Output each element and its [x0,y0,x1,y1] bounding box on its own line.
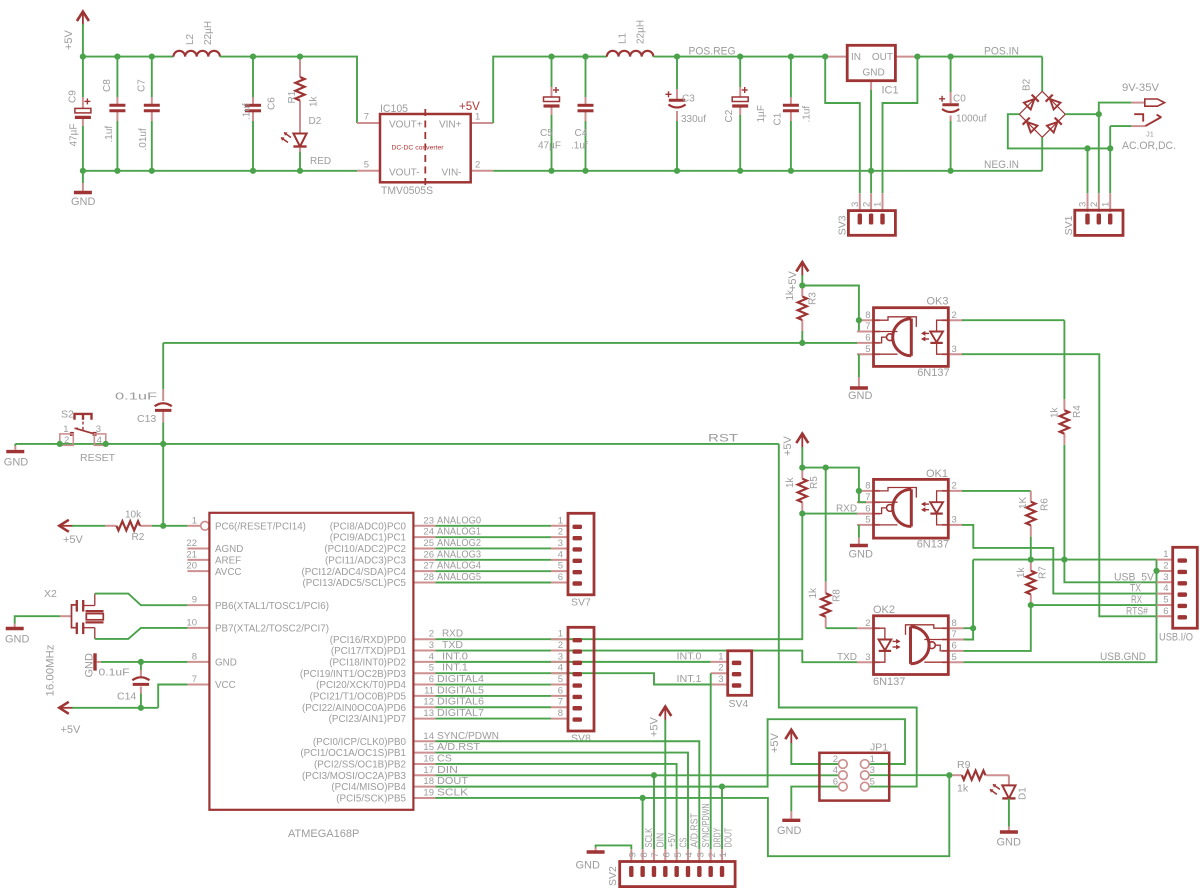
svg-text:2: 2 [558,527,563,538]
svg-text:INT.0: INT.0 [677,651,702,663]
svg-text:(PCI10/ADC2)PC2: (PCI10/ADC2)PC2 [324,544,406,555]
svg-text:(PCI18/INT0)PD2: (PCI18/INT0)PD2 [329,657,406,668]
IC105 pin name VIN- [442,167,462,178]
svg-text:DIGITAL4: DIGITAL4 [437,673,484,685]
connector SV3 pin stubs [860,193,883,212]
wire +5V to OK1 pins 8/7 [802,468,866,503]
label C7 value .01uf [138,128,149,150]
svg-text:0.1uF: 0.1uF [99,667,130,679]
crystal X2 gnd wire [15,616,60,627]
svg-text:DRDY: DRDY [711,828,723,848]
IC105 pin 7 stub [357,122,380,124]
label C2 value 1uF [756,105,767,122]
resistor R7 pins [1030,560,1032,606]
svg-text:1: 1 [870,754,875,765]
connector SV3 box [848,211,895,236]
power symbol +5V (R2) [59,520,83,546]
junction RXD at R5 bottom [799,510,805,516]
wire SV1 pin 2 [1098,114,1100,193]
label +5V (red, at VIN+) [459,101,480,113]
IC105 pin name VIN+ [439,120,462,131]
svg-text:GND: GND [4,457,29,469]
wire top +5V rail left segment [83,56,174,58]
wire SCLK to SV2 pin 8 [642,798,644,849]
svg-text:D2: D2 [309,116,322,127]
svg-text:GND: GND [71,196,96,208]
wire top rail POS.REG segment [653,56,825,58]
net label RTS# [1126,605,1149,617]
svg-text:6N137: 6N137 [873,676,905,688]
label DC-DC converter (red) [391,145,444,152]
svg-text:1: 1 [192,515,197,526]
wire R8 to OK2 pin 2 [826,627,857,629]
IC1 IN pin stub [825,56,847,58]
wire DOUT net [435,719,905,786]
label R3 value 1k [785,289,796,301]
junction +5V rail at C9 [80,54,86,60]
IC105 pin number 5 [364,159,369,170]
wire INT.1 net [435,673,710,684]
svg-text:VIN-: VIN- [442,167,462,178]
switch S2 pin boxes [60,434,106,445]
JP1 pin numbers left [833,754,838,788]
IC105 pin number 2 [475,159,480,170]
label OK1 [926,468,948,480]
wire CS net [435,764,676,849]
IC1 pin name IN [851,52,861,63]
svg-text:B2: B2 [1022,78,1033,91]
label C14 value 0.1uF [99,667,130,679]
svg-text:POS.REG: POS.REG [689,46,736,58]
IC1 pin name GND [863,68,885,79]
ground GND (X2) [5,629,30,646]
label C13 value 0.1uF [115,391,157,403]
bridge B2 diamond outline [1019,91,1065,137]
junction +5V rail at R1 [297,54,303,60]
wire A/D.RST net [435,753,688,850]
svg-text:DIN: DIN [655,833,667,848]
svg-text:1k: 1k [785,289,796,301]
svg-text:VIN+: VIN+ [439,120,462,131]
label R5 value 1k [785,476,796,488]
optocoupler OK1 (6N137) [857,479,964,538]
junction AC loop at SV1 pin 3 [1084,145,1090,151]
svg-text:SYNC/PDWN: SYNC/PDWN [437,730,499,742]
svg-text:(PCI11/ADC3)PC3: (PCI11/ADC3)PC3 [325,555,406,566]
connector SV2 box [620,862,735,887]
LED D2 [281,132,307,146]
label R1 [287,90,298,103]
svg-text:R2: R2 [132,532,145,543]
svg-text:6N137: 6N137 [917,367,949,379]
svg-text:5: 5 [1163,594,1168,605]
junction RST at C13 [160,441,166,447]
svg-text:RXD: RXD [442,628,463,640]
svg-text:11: 11 [424,685,434,696]
wire GND to pin 8 [97,661,188,663]
svg-text:ANALOG0: ANALOG0 [437,514,481,526]
junction POS.IN at C0 [948,54,954,60]
svg-text:(PCI21/T1/OC0B)PD5: (PCI21/T1/OC0B)PD5 [310,692,407,703]
svg-text:1: 1 [63,424,68,435]
connector J1 bracket [1134,114,1143,121]
svg-text:AGND: AGND [215,544,243,555]
junction POS.REG at C5 [548,54,554,60]
label OK2 [873,604,895,616]
label C8 [102,79,113,92]
svg-text:24: 24 [423,527,434,538]
svg-text:23: 23 [423,515,434,526]
wire DOUT to SV2 pin 1 [721,787,723,850]
svg-text:.1uf: .1uf [802,106,813,123]
IC105 pin number 7 [364,112,369,123]
svg-text:6: 6 [865,333,870,344]
svg-text:18: 18 [423,776,434,787]
wire +5V to R5 junction [801,447,803,468]
svg-text:8: 8 [865,481,870,492]
optocoupler OK3 (6N137) [857,308,964,367]
label C14 [117,691,136,703]
svg-text:OUT: OUT [872,52,893,63]
svg-text:+5V: +5V [63,29,75,50]
svg-text:(PCI0/ICP/CLK0)PB0: (PCI0/ICP/CLK0)PB0 [313,737,407,748]
svg-text:.1uf: .1uf [104,126,115,143]
junction POS.REG at C3 [674,54,680,60]
wire INT.0 net [435,661,710,663]
svg-text:2: 2 [861,202,872,207]
svg-text:4: 4 [97,435,102,446]
junction +5V at R8 [823,465,829,471]
power symbol +5V (JP1) [769,730,797,753]
svg-text:5: 5 [429,663,434,674]
connector SV8 pads [573,638,583,722]
junction RX at R7 bottom [1028,602,1034,608]
connector SV7 pads [573,525,583,586]
svg-text:GND: GND [777,825,802,837]
capacitor C8 [109,105,125,111]
wire OK2 pin 8 tap [964,627,974,629]
IC ATMEGA168P pin stubs [187,522,435,798]
junction GND rail at C3 [674,168,680,174]
label B2 [1022,78,1033,91]
svg-text:2: 2 [707,852,718,857]
svg-text:3: 3 [952,515,957,526]
svg-text:DIGITAL6: DIGITAL6 [437,696,484,708]
capacitor C5 (polarized) [544,87,560,106]
svg-text:C3: C3 [682,94,695,105]
wire bottom rail left segment [83,170,357,172]
wire top rail L2 to corner [220,57,357,123]
capacitor C4 wires [585,57,587,171]
connector SV1 box [1075,210,1123,235]
svg-text:330uf: 330uf [681,114,706,125]
switch S2 plunger dashes [82,422,84,430]
svg-text:(PCI13/ADC5/SCL)PC5: (PCI13/ADC5/SCL)PC5 [303,578,407,589]
svg-text:GND: GND [849,549,874,561]
wire OK3 pin 6 net (long) [163,342,857,344]
svg-text:(PCI16/RXD)PD0: (PCI16/RXD)PD0 [330,635,407,646]
label R9 value 1k [957,783,969,795]
svg-text:16: 16 [423,753,434,764]
svg-text:7: 7 [650,852,661,857]
net label USB.GND [1100,651,1146,663]
svg-text:CS: CS [437,752,452,764]
connector JP1 box [819,753,889,801]
svg-text:C7: C7 [137,79,148,92]
junction +5V at R5 [799,465,805,471]
net label RXD (at OK1) [836,502,857,514]
ATMEGA right pin numbers [423,515,434,798]
svg-text:1: 1 [558,515,563,526]
JP1 pin numbers right [870,754,875,788]
junction POS.REG at C2 [737,54,743,60]
IC105 pin name VOUT- [389,167,420,178]
svg-text:C4: C4 [575,128,588,139]
svg-text:3: 3 [850,202,861,207]
IC105 pin 1 stub [471,122,494,124]
svg-text:6: 6 [865,503,870,514]
svg-text:(PCI1/OC1A/OC1S)PB1: (PCI1/OC1A/OC1S)PB1 [300,748,406,759]
label SV3 [837,215,849,235]
connector SV7 stubs [551,526,568,583]
junction NEG.IN at IC1 GND [868,168,874,174]
svg-text:(PCI23/AIN1)PD7: (PCI23/AIN1)PD7 [329,714,406,725]
svg-text:8: 8 [558,708,563,719]
svg-text:2: 2 [1163,560,1168,571]
svg-text:7: 7 [952,629,957,640]
wire RX to USB pin 5 [1031,604,1157,606]
inductor L2 [174,51,220,57]
OK1 pin numbers [865,481,957,526]
svg-text:8: 8 [865,310,870,321]
label D1 [1018,787,1029,800]
ground GND (JP1) [777,820,802,837]
svg-text:(PCI2/SS/OC1B)PB2: (PCI2/SS/OC1B)PB2 [314,760,406,771]
connector SV2 stubs [631,849,722,863]
svg-text:2: 2 [1089,202,1100,207]
svg-text:GND: GND [5,634,30,646]
svg-text:TXD: TXD [442,639,463,651]
resistor R8 [821,593,830,617]
svg-text:1: 1 [718,651,723,662]
svg-text:L1: L1 [618,32,629,44]
resistor R8 pins [825,582,827,628]
junction RST at S2 pin 4 [103,441,109,447]
wire R2 to ATMEGA pin 1 [152,525,187,527]
capacitor C9 (polarized) [75,98,91,117]
IC105 dashed divider [424,109,426,188]
svg-text:IN: IN [851,52,861,63]
junction +5V rail at C6 [250,54,256,60]
svg-text:POS.IN: POS.IN [984,46,1019,58]
junction AC loop at SV1 pin 1 [1107,145,1113,151]
svg-text:21: 21 [186,549,197,560]
svg-text:1000uf: 1000uf [956,114,987,125]
label D2 value RED [310,156,331,167]
svg-text:(PCI19/INT1/OC2B)PD3: (PCI19/INT1/OC2B)PD3 [300,669,407,680]
label C9 value 47uF [69,124,80,147]
svg-text:5: 5 [558,561,563,572]
junction GND rail at C7 [149,168,155,174]
connector SV7 box [568,513,594,595]
junction RST/R2 at ATMEGA pin 1 [160,523,166,529]
label OK3 [927,295,949,307]
label R6 value 1K [1018,496,1029,509]
net label TX [1130,583,1142,595]
net labels RXD..DIGITAL7 [437,628,484,719]
junction POS.REG at IC1 IN [822,54,828,60]
OK3 pin numbers [865,310,957,355]
svg-text:DIN: DIN [437,764,458,776]
label L1 [618,32,629,44]
label JP1 [870,742,888,754]
svg-text:1: 1 [718,852,729,857]
wire +5V to JP1 pin 2 [791,743,838,764]
net label POS.REG [689,46,736,58]
svg-text:R1: R1 [287,90,298,103]
svg-text:1k: 1k [785,476,796,488]
junction GND rail at C2 [737,168,743,174]
label D2 [309,116,322,127]
label C7 [137,79,148,92]
IC105 pin name VOUT+ [389,120,423,131]
wire SV3 pin 1 branch [883,57,918,194]
wire D2 to bottom rail [299,148,301,171]
label C8 value .1uf [104,126,115,143]
crystal X2 (resonator) [60,594,104,639]
label IC1 [882,85,899,97]
junction +5V rail at C8 [114,54,120,60]
junction SCLK at SV2 pin 8 [640,795,646,801]
svg-text:USB_5V: USB_5V [1114,571,1155,583]
capacitor C1 wires [790,57,792,171]
IC105 pin number 1 [475,112,480,123]
wire USB_5V branch [1064,560,1156,583]
wire +5V to SV2 pin 6 [664,720,666,850]
svg-text:DIGITAL5: DIGITAL5 [437,684,484,696]
svg-text:ANALOG1: ANALOG1 [437,526,481,538]
svg-text:4: 4 [429,651,434,662]
wires DIGITAL4-7 to SV8 [435,685,551,719]
resistor R1 pins [299,57,301,134]
connector SV4 pads [732,661,742,688]
svg-text:RTS#: RTS# [1126,605,1149,617]
optocoupler OK2 (6N137) [857,616,964,675]
svg-text:8: 8 [639,852,650,857]
svg-text:SV2: SV2 [607,866,619,886]
switch S2 contacts [70,432,97,436]
label IC105 [380,103,408,115]
wire SV1 pin 1 (from J1) [1109,126,1111,193]
svg-text:5: 5 [364,159,369,170]
connector USB.I/O pin numbers [1163,549,1168,617]
ground GND (D1) [997,832,1022,849]
junction USB rail at R4 [1061,557,1067,563]
svg-text:6: 6 [833,777,838,788]
capacitor C1 [783,105,799,111]
junction GND rail at C5 [548,168,554,174]
junction USB pin 2 [1153,568,1159,574]
svg-text:+5V: +5V [782,435,794,456]
label SV8 [571,733,591,745]
svg-text:2: 2 [833,754,838,765]
svg-text:(PCI22/AIN0OC0A)PD6: (PCI22/AIN0OC0A)PD6 [302,703,407,714]
resistor R5 pins [801,468,803,514]
svg-text:1µF: 1µF [756,105,767,122]
svg-text:19: 19 [423,787,434,798]
svg-text:RXD: RXD [836,502,857,514]
junction GND rail at D2 [297,168,303,174]
wire SV3 pin 2 branch (IC1 GND) [870,90,872,193]
net label USB_5V [1114,571,1155,583]
svg-text:R6: R6 [1040,498,1051,511]
SV2 net labels (rotated) [643,803,734,847]
junction +5V at C14 bottom [138,705,144,711]
svg-text:R7: R7 [1038,566,1049,579]
connector SV1 pin stubs [1088,193,1111,212]
wire B2 bottom to NEG.IN rail [1041,137,1043,171]
label C4 [575,128,588,139]
wire +5V to R2 [72,525,105,527]
svg-text:R8: R8 [832,589,843,602]
label R1 value 1k [309,95,320,107]
wires ANALOG0-5 to SV7 [435,526,551,583]
junction NEG.IN at C0 [948,168,954,174]
net labels ANALOG0-5 [437,514,481,583]
label R4 value 1k [1050,406,1061,418]
connector USB.I/O pads [1178,558,1188,619]
connector SV8 stubs [551,639,568,718]
label USB.I/O [1159,632,1193,644]
label C1 value .1uf [802,106,813,123]
label SV7 [571,597,591,609]
svg-text:SV1: SV1 [1063,215,1075,235]
svg-text:CS: CS [677,838,689,848]
junction DOUT at SV2 pin 1 [719,784,725,790]
svg-text:15: 15 [423,742,434,753]
svg-text:1: 1 [558,629,563,640]
svg-text:6: 6 [1163,606,1168,617]
wire DRDY SV4 pin2 to SV2 pin2 [710,673,712,849]
svg-text:2: 2 [475,159,480,170]
junction GND rail at C6 [250,168,256,174]
net label INT.1 (at SV4) [677,673,702,685]
svg-text:C6: C6 [267,97,278,110]
junction GND rail at C8 [114,168,120,174]
svg-text:10: 10 [186,617,197,628]
wire SV3 pin 3 branch [825,57,860,194]
svg-text:8: 8 [952,618,957,629]
svg-text:2: 2 [558,640,563,651]
svg-text:(PCI3/MOSI/OC2A)PB3: (PCI3/MOSI/OC2A)PB3 [302,771,407,782]
label S2 [61,409,74,421]
svg-text:(PCI8/ADC0)PC0: (PCI8/ADC0)PC0 [330,521,407,532]
bridge B2 diode top-right [1046,95,1061,110]
capacitor C14 wires [140,662,142,708]
label J1 [1146,130,1154,139]
label C0 value 1000uf [956,114,987,125]
svg-text:DC-DC converter: DC-DC converter [391,145,444,152]
capacitor C5 wires [551,57,553,171]
wire +5V to VCC dogleg [72,685,187,708]
svg-text:3: 3 [1163,572,1168,583]
svg-text:ATMEGA168P: ATMEGA168P [288,828,359,840]
wire D1 to GND [1008,798,1010,830]
svg-text:X2: X2 [44,588,57,600]
wire OK1 pin 2 to R6 [962,490,1031,492]
svg-text:INT.1: INT.1 [442,662,468,674]
svg-text:.1uf: .1uf [242,103,253,120]
